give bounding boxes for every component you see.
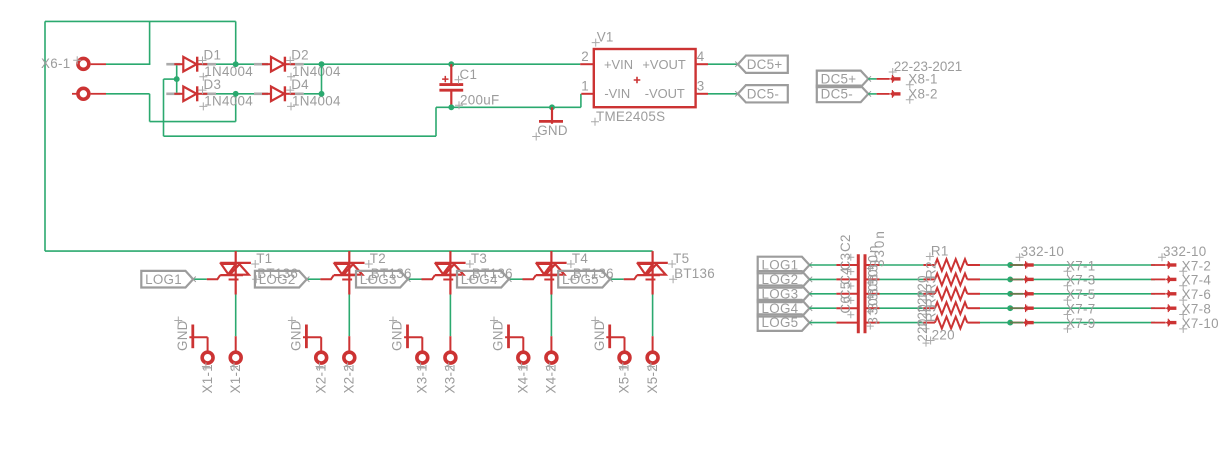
label T2 value BT136 [366,266,412,283]
wire: T5 to X5-2 [652,295,654,337]
svg-text:220: 220 [915,318,930,341]
flag LOG4 (triac row) [457,271,512,288]
triac T2 [320,251,364,294]
connector pin X8-2 [877,87,938,104]
svg-text:X4-2: X4-2 [544,364,559,394]
wire: LOG3 to C4 [810,293,837,295]
junction: lower AC midpoint node [233,91,239,97]
svg-text:LOG1: LOG1 [145,272,182,287]
svg-text:X2-2: X2-2 [342,364,357,394]
junction: C1 top node [448,61,454,67]
svg-text:X4-1: X4-1 [516,364,531,394]
connector pin X7-5 [1010,287,1095,304]
flag LOG5 (triac row) [558,271,613,288]
capacitor C2-C6 plates [858,254,865,333]
wire: resistor to X7 pins (row 2) [980,278,1155,280]
wire: bridge left common (DC-) vertical [176,64,178,94]
label R1 [926,244,949,261]
svg-text:GND: GND [537,123,568,138]
ground GND (near V1) [532,107,568,140]
wire: D4 cathode up to DC+ node [304,64,322,94]
flag DC5+ (at V1) [735,56,788,73]
wire: LOG1 to C2 [810,264,837,266]
svg-text:GND: GND [491,320,506,351]
wire: C3 to R [880,278,924,280]
resistor R (row 4) [923,302,980,314]
wire: C4 to R [880,293,924,295]
connector pin X7-10 [1151,316,1219,333]
connector pin X2-2 [342,336,357,393]
junction: DC+ node [319,61,325,67]
connector pin X7-3 [1010,273,1095,290]
ground GND (X2) [288,317,321,353]
connector pin X7-7 [1010,302,1095,319]
junction: X7 node row 3 [1007,291,1013,297]
connector pin X2-1 [313,352,328,393]
svg-text:LOG2: LOG2 [259,272,296,287]
connector pin X4-2 [544,336,559,393]
connector pin X1-1 [200,352,215,393]
triac T4 [523,251,567,294]
wire: D1 cathode to midpoint [216,63,236,65]
wire: C5 to R [880,307,924,309]
diode D2 [254,48,309,72]
svg-text:BT136: BT136 [674,266,715,281]
connector pin X7-8 [1151,302,1211,319]
wire: resistor to X7 pins (row 4) [980,307,1155,309]
svg-text:332-10: 332-10 [1021,244,1065,259]
wire: LOG2 to C3 [810,278,837,280]
pin 4 of V1 [696,49,708,64]
label T4 [567,251,588,268]
wire: +VOUT to DC5+ flag [708,63,738,65]
flag LOG1 (triac row) [141,271,196,288]
svg-text:+VIN: +VIN [604,57,633,72]
svg-text:GND: GND [175,320,190,351]
flag LOG2 (X7 column) [758,271,813,288]
junction: bridge DC- node [174,76,180,82]
ground GND (X4) [490,317,523,353]
wire: LOG5 to C6 [810,322,837,324]
label D2 value 1N4004 [287,64,341,81]
svg-text:X1-2: X1-2 [228,364,243,394]
label D4 value 1N4004 [287,93,341,110]
svg-text:X6-1: X6-1 [41,56,71,71]
svg-text:C6: C6 [838,296,853,314]
wire: LOG4 flag to T4 gate [509,278,523,280]
label T4 value BT136 [568,266,614,283]
flag LOG4 (X7 column) [758,300,813,317]
connector pin X5-2 [645,336,660,393]
svg-text:X3-2: X3-2 [443,364,458,394]
diode D1 [166,48,221,72]
connector pin X3-1 [415,352,430,393]
wire: LOG4 to C5 [810,307,837,309]
connector pin X3-2 [443,336,458,393]
pin 1 of V1 [581,78,594,94]
label V1 value TME2405S [591,109,665,126]
wire: LOG5 flag to T5 gate [610,278,624,280]
connector X6 pin X6-2 [72,88,106,99]
connector pin X5-1 [617,352,632,393]
svg-text:-VOUT: -VOUT [645,86,685,101]
svg-text:LOG5: LOG5 [562,272,599,287]
flag LOG1 (X7 column) [758,257,813,274]
wire: DC5- flag to X8-2 [868,93,876,95]
svg-text:2: 2 [581,49,589,64]
wire: T2 to X2-2 [348,295,350,337]
connector pin X4-1 [516,352,531,393]
wire: DC5+ flag to X8-1 [868,78,876,80]
resistor R (row 2) [923,274,980,286]
wire: AC rail to triacs [45,250,653,252]
junction: upper AC midpoint node [233,61,239,67]
wire: LOG2 flag to T2 gate [307,278,321,280]
svg-text:X1-1: X1-1 [200,364,215,394]
flag LOG5 (X7 column) [758,314,813,331]
triac T1 [207,251,251,294]
label T2 [365,251,386,268]
connector pin X1-2 [228,336,243,393]
svg-text:330n: 330n [865,287,880,325]
svg-text:LOG5: LOG5 [762,315,799,330]
flag DC5+ (at X8) [817,71,871,88]
wire: DC+ rail to regulator +VIN [322,63,581,65]
label T5 value BT136 [669,266,715,283]
connector pin X8-1 [877,72,938,89]
junction: X7 node row 4 [1007,305,1013,311]
wire: T4 to X4-2 [550,295,552,337]
flag LOG3 (X7 column) [758,286,813,303]
wire: T1 to X1-2 [235,295,237,337]
label 332-10 (right) [1158,244,1207,261]
svg-text:DC5-: DC5- [747,86,779,101]
svg-text:LOG3: LOG3 [360,272,397,287]
capacitor C2 leads [836,264,879,266]
dc-dc converter V1 body [594,49,696,107]
ground GND (X5) [591,317,624,353]
svg-text:TME2405S: TME2405S [596,109,665,124]
label V1 [592,30,614,47]
svg-text:3: 3 [697,78,705,93]
wire: X6 pin2 to bridge lower midpoint [106,94,236,122]
label T1 [251,251,272,268]
triac T3 [422,251,466,294]
wire: LOG1 flag to T1 gate [193,278,207,280]
label D1 value 1N4004 [199,64,253,81]
svg-text:C2: C2 [838,234,853,252]
svg-text:+VOUT: +VOUT [642,57,685,72]
connector pin X7-1 [1010,258,1095,275]
labels C2-C6 values 330n (rotated, overlapping) [865,229,887,329]
ground GND (X1) [174,317,207,353]
wire: C6 to R [880,322,924,324]
svg-text:DC5-: DC5- [821,87,853,102]
wire: DC- route to smoothing/regulator [164,79,581,136]
resistor R (row 1) [923,259,980,271]
capacitor C6 leads [836,322,879,324]
diode D3 [166,77,221,101]
label T5 [668,251,689,268]
resistor R (row 3) [923,288,980,300]
svg-text:332-10: 332-10 [1163,244,1207,259]
connector pin X7-2 [1151,258,1211,275]
svg-text:-VIN: -VIN [604,86,630,101]
svg-text:GND: GND [592,320,607,351]
wire: lower midpoint to D4 anode [236,93,254,95]
capacitor C3 leads [836,278,879,280]
svg-text:220: 220 [932,328,955,343]
svg-text:DC5+: DC5+ [747,57,783,72]
ground GND (X3) [389,317,422,353]
svg-text:LOG4: LOG4 [461,272,498,287]
flag DC5- (at V1) [735,85,788,102]
wire: LOG3 flag to T3 gate [408,278,422,280]
wire: C2 to R [880,264,924,266]
svg-text:GND: GND [289,320,304,351]
flag DC5- (at X8) [817,86,871,103]
label T3 [466,251,487,268]
wire: D3 cathode to lower midpoint [216,93,236,95]
label C1 [455,67,478,84]
svg-text:X5-2: X5-2 [645,364,660,394]
wire: T3 to X3-2 [449,295,451,337]
junction: X7 node row 1 [1007,262,1013,268]
connector X6 pin X6-1 [41,56,106,71]
wire: resistor to X7 pins (row 1) [980,264,1155,266]
pin 2 of V1 [580,49,594,64]
wire: D2 cathode to DC+ node [304,63,322,65]
junction: D4 cathode node [319,91,325,97]
wire: net AC1 top frame (left vertical + top horizontal + drop to bridge midpoint) [45,21,236,251]
flag LOG3 (triac row) [356,271,411,288]
svg-text:X3-1: X3-1 [415,364,430,394]
wire: X6 pin1 to riser [106,63,150,65]
wire: resistor to X7 pins (row 3) [980,293,1155,295]
pin 3 of V1 [696,78,708,94]
connector pin X7-9 [1010,316,1095,333]
junction: C1 bottom node [448,104,454,110]
label T3 value BT136 [467,266,513,283]
capacitor C4 leads [836,293,879,295]
svg-text:4: 4 [697,49,705,64]
wire: midpoint to D2 anode [236,63,254,65]
label date 22-23-2021 [889,59,963,76]
svg-text:1N4004: 1N4004 [204,93,253,108]
labels R2-R5 (rotated, overlapping) [924,261,939,322]
labels C2-C6 (rotated, overlapping) [838,234,855,318]
svg-text:X5-1: X5-1 [617,364,632,394]
svg-text:1N4004: 1N4004 [292,93,341,108]
svg-text:X2-1: X2-1 [313,364,328,394]
capacitor C1 [439,64,463,107]
svg-text:DC5+: DC5+ [821,72,857,87]
label 332-10 (left) [1016,244,1065,261]
wire: -VOUT to DC5- flag [708,93,738,95]
label value 220 (bottom) [927,328,955,345]
svg-text:1: 1 [581,78,589,93]
label T1 value BT136 [252,266,298,283]
label D3 value 1N4004 [199,93,253,110]
resistor R (row 5) [923,317,980,329]
svg-text:200uF: 200uF [460,92,499,107]
flag LOG2 (triac row) [255,271,310,288]
diode D4 [254,77,309,101]
wire: resistor to X7 pins (row 5) [980,322,1155,324]
junction: X7 node row 5 [1007,320,1013,326]
connector pin X7-6 [1151,287,1211,304]
capacitor C5 leads [836,307,879,309]
labels resistor values 220 (rotated, overlapping) [915,275,930,346]
svg-text:GND: GND [390,320,405,351]
junction: X7 node row 2 [1007,276,1013,282]
connector pin X7-4 [1151,273,1211,290]
triac T5 [624,251,668,294]
label C1 value 200uF [455,92,499,109]
junction: GND tap node [549,104,555,110]
